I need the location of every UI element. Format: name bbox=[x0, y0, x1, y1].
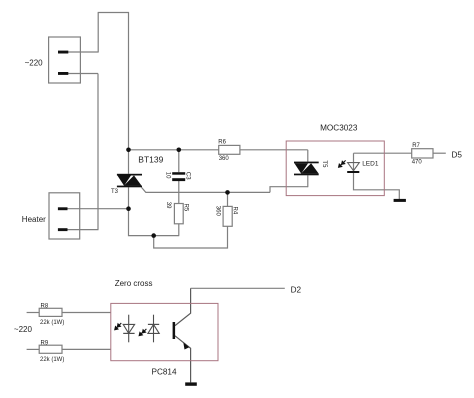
wire R7 right to D5 bbox=[433, 152, 446, 154]
svg-text:R7: R7 bbox=[412, 143, 420, 149]
resistor R5 bbox=[174, 204, 183, 224]
svg-text:MOC3023: MOC3023 bbox=[320, 123, 358, 132]
wire gate jog to optotriac bottom bbox=[270, 187, 308, 193]
resistor R8 bbox=[39, 308, 62, 316]
resistor R6 bbox=[219, 145, 240, 154]
ground for LED1 bbox=[394, 199, 406, 202]
phototransistor Q1 base bar bbox=[173, 322, 176, 339]
pin 1 of connector X2 bbox=[58, 207, 68, 210]
wire R5 bottom lead bbox=[178, 224, 180, 236]
svg-text:10: 10 bbox=[165, 172, 171, 179]
wire node A to triac top bbox=[128, 150, 130, 174]
junction C3 top bbox=[177, 148, 182, 153]
LED1 cathode bar bbox=[347, 171, 359, 173]
junction R4 top on gate wire bbox=[225, 190, 230, 195]
PC814 LED A arrows bbox=[115, 323, 122, 330]
pin 2 of connector X2 bbox=[58, 228, 68, 231]
pin 2 of connector X1 bbox=[58, 72, 68, 75]
svg-text:~220: ~220 bbox=[25, 59, 44, 68]
wire D2 horizontal bbox=[191, 287, 285, 289]
svg-text:R6: R6 bbox=[218, 140, 226, 146]
connector X1 (~220) body bbox=[49, 37, 81, 83]
svg-text:D5: D5 bbox=[452, 150, 463, 159]
wire R9 right to PC814 bbox=[62, 348, 111, 350]
PC814 LED B arrows bbox=[139, 329, 146, 336]
svg-text:T5: T5 bbox=[321, 160, 327, 168]
wire LED1 top to R7 left bbox=[354, 152, 412, 154]
wire phototransistor collector to D2 bbox=[175, 288, 191, 325]
svg-text:D2: D2 bbox=[291, 286, 302, 295]
pin 1 of connector X1 bbox=[58, 51, 68, 54]
resistor R9 bbox=[39, 345, 62, 353]
svg-text:360: 360 bbox=[215, 206, 221, 217]
wire heater pin1 to node B bbox=[66, 208, 129, 210]
svg-text:C3: C3 bbox=[185, 172, 191, 180]
junction node C bottom rail bbox=[151, 233, 156, 238]
triac T3 BT139 symbol bbox=[117, 174, 142, 188]
optocoupler U2 PC814 box bbox=[111, 303, 218, 360]
wire R6 right to optotriac top bbox=[240, 149, 308, 151]
svg-text:BT139: BT139 bbox=[138, 155, 163, 165]
phototransistor emitter arrowhead bbox=[183, 342, 189, 349]
svg-text:39: 39 bbox=[165, 202, 171, 209]
wire R4 top lead bbox=[227, 192, 229, 206]
wire node C branch to R4 bottom bbox=[154, 226, 228, 248]
wire R8 right to PC814 bbox=[62, 312, 111, 314]
wire main vertical down to node A bbox=[128, 12, 130, 150]
connector X2 (Heater) body bbox=[49, 193, 80, 239]
svg-text:360: 360 bbox=[219, 156, 230, 162]
capacitor C3 bbox=[172, 172, 185, 181]
svg-text:R8: R8 bbox=[41, 304, 49, 310]
junction node B heater pin1 bbox=[126, 206, 131, 211]
wire R8 left bbox=[27, 312, 40, 314]
svg-text:22k (1W): 22k (1W) bbox=[40, 357, 64, 363]
wire LED1 anode lead bbox=[353, 153, 355, 171]
wire R9 left bbox=[27, 348, 40, 350]
resistor R7 bbox=[412, 149, 433, 158]
wire heater pin2 bbox=[66, 229, 99, 231]
junction node A bbox=[126, 148, 131, 153]
wire optotriac bottom lead bbox=[307, 175, 309, 187]
wire top horizontal bbox=[98, 12, 129, 14]
svg-text:Heater: Heater bbox=[22, 215, 46, 224]
resistor R4 bbox=[223, 206, 232, 226]
wire C3 to R5 bbox=[178, 181, 180, 204]
wire optotriac top lead bbox=[307, 150, 309, 162]
wire node A to R6 left bbox=[129, 149, 219, 151]
wire triac gate bbox=[142, 187, 271, 192]
svg-text:470: 470 bbox=[412, 160, 423, 166]
svg-text:R5: R5 bbox=[182, 204, 188, 212]
svg-text:LED1: LED1 bbox=[362, 161, 379, 168]
PC814 input LED A bbox=[128, 315, 130, 343]
LED1 emission arrows bbox=[339, 160, 346, 167]
wire vertical up from ~220 pin1 bbox=[97, 13, 99, 53]
svg-text:22k (1W): 22k (1W) bbox=[40, 320, 64, 326]
svg-text:R4: R4 bbox=[232, 207, 238, 215]
svg-text:PC814: PC814 bbox=[152, 367, 177, 376]
wire LED1 cathode to ground bbox=[354, 173, 400, 200]
wire ~220 pin1 to bend bbox=[66, 51, 98, 53]
wire vertical ~220 pin2 down to heater pin2 bbox=[97, 74, 99, 230]
wire C3 top lead bbox=[178, 150, 180, 172]
ground for phototransistor bbox=[185, 382, 197, 385]
PC814 input LED B (antiparallel) bbox=[153, 315, 155, 343]
optotriac T5 symbol bbox=[294, 162, 319, 176]
svg-text:~220: ~220 bbox=[14, 325, 33, 334]
wire triac bottom to corner and R5 bottom rail bbox=[129, 187, 180, 235]
svg-text:R9: R9 bbox=[41, 341, 49, 347]
wire ~220 pin2 to bend bbox=[66, 73, 98, 75]
wire phototransistor emitter to ground bbox=[175, 336, 191, 383]
LED1 symbol bbox=[348, 163, 360, 171]
optocoupler U1 MOC3023 box bbox=[286, 141, 384, 196]
svg-text:T3: T3 bbox=[111, 189, 119, 195]
svg-text:Zero cross: Zero cross bbox=[115, 279, 153, 288]
